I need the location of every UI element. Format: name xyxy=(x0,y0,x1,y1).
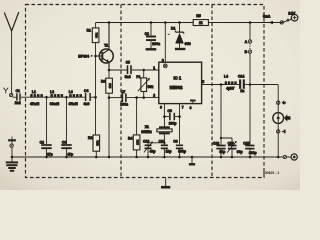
svg-text:C4: C4 xyxy=(84,89,88,93)
transistor T1 xyxy=(96,23,114,71)
wire emitter to C5 xyxy=(109,69,127,71)
svg-text:IC 1: IC 1 xyxy=(174,75,182,80)
wire B to output node xyxy=(249,53,251,84)
bottom terminal xyxy=(283,155,291,158)
capacitor C2 xyxy=(41,97,51,157)
rail ground marker xyxy=(189,157,195,164)
svg-text:1: 1 xyxy=(153,66,155,70)
svg-text:1k: 1k xyxy=(199,21,203,25)
earth terminal xyxy=(10,144,13,157)
antenna terminal marker xyxy=(3,88,12,97)
current arrow 5mA xyxy=(269,21,273,24)
earth ground symbol xyxy=(6,157,18,171)
svg-text:4µH7: 4µH7 xyxy=(226,87,234,91)
capacitor C11 xyxy=(161,143,168,157)
node earphone/ground rail xyxy=(277,156,280,159)
capacitor C1 xyxy=(17,93,30,100)
svg-text:+: + xyxy=(287,18,289,22)
svg-text:T1: T1 xyxy=(104,44,108,48)
svg-text:C15: C15 xyxy=(243,141,249,145)
shield divider 1 xyxy=(120,5,122,178)
svg-text:5n6: 5n6 xyxy=(125,75,131,79)
node collector/rail xyxy=(108,21,111,24)
pin 7 wire xyxy=(179,104,181,145)
node base column (C4 junction) xyxy=(94,96,97,99)
svg-text:880829 - 2: 880829 - 2 xyxy=(263,171,279,175)
inductor L2 xyxy=(50,94,63,97)
IC internal ground (pin 3) xyxy=(190,101,196,104)
node L4 left xyxy=(220,83,223,86)
node pin1/P1 top xyxy=(142,69,145,72)
svg-text:L3: L3 xyxy=(69,90,73,94)
svg-text:L1: L1 xyxy=(32,90,36,94)
svg-text:C9: C9 xyxy=(168,109,172,113)
svg-text:5: 5 xyxy=(202,80,204,84)
node L1/L2 junction xyxy=(45,96,48,99)
diode D1 (zener) xyxy=(175,23,186,50)
node pin7/C9 xyxy=(178,115,181,118)
node rail / A tap xyxy=(249,21,252,24)
trimmer C10 xyxy=(144,141,153,157)
svg-text:6V8: 6V8 xyxy=(185,42,191,46)
top supply rail xyxy=(96,22,283,24)
svg-text:3: 3 xyxy=(190,106,192,110)
paper background xyxy=(0,0,300,190)
svg-text:8: 8 xyxy=(162,58,164,62)
jack terminal bottom xyxy=(277,130,285,134)
svg-text:2: 2 xyxy=(153,94,155,98)
dotted link A-B xyxy=(249,44,251,50)
trimmer C13 xyxy=(227,141,237,157)
node crystal / C11 xyxy=(163,142,165,144)
wire antenna to C1 xyxy=(13,96,17,98)
svg-text:100n: 100n xyxy=(152,42,160,46)
svg-text:60p: 60p xyxy=(237,150,243,154)
wire link C12-C13 xyxy=(221,138,232,145)
svg-text:C14: C14 xyxy=(238,74,244,78)
svg-text:C13: C13 xyxy=(228,141,234,145)
capacitor C5 xyxy=(128,65,159,74)
svg-text:NE602: NE602 xyxy=(170,85,183,90)
terminal B xyxy=(248,50,251,53)
capacitor C9 xyxy=(164,113,179,120)
rail junction dots xyxy=(11,156,14,159)
svg-text:7: 7 xyxy=(182,106,184,110)
earth terminal chassis bar xyxy=(8,137,16,144)
svg-text:R4: R4 xyxy=(128,136,132,140)
svg-text:10k: 10k xyxy=(136,139,140,144)
svg-text:C7: C7 xyxy=(121,90,125,94)
resistor R5 xyxy=(193,20,208,26)
svg-text:C5: C5 xyxy=(126,61,130,65)
svg-text:330p: 330p xyxy=(249,151,257,155)
battery + 12V xyxy=(291,14,298,21)
antenna xyxy=(4,12,18,93)
earphone xyxy=(273,113,291,124)
pin 6 wire xyxy=(163,104,165,127)
svg-text:3n3: 3n3 xyxy=(84,102,90,106)
svg-text:47mH: 47mH xyxy=(30,102,40,106)
svg-text:R2: R2 xyxy=(88,136,92,140)
wire R3 node to C7 xyxy=(109,97,122,99)
svg-text:B: B xyxy=(245,50,248,54)
svg-text:X1: X1 xyxy=(145,125,149,129)
svg-text:D1: D1 xyxy=(171,27,175,31)
node R3 bottom xyxy=(108,96,111,99)
capacitor C6 xyxy=(146,23,157,50)
inductor L1 xyxy=(30,94,43,97)
inductor L4 xyxy=(225,81,237,84)
svg-text:5mA: 5mA xyxy=(263,15,271,19)
battery - terminal xyxy=(291,154,297,160)
potentiometer P1 xyxy=(138,70,150,98)
inductor L3 xyxy=(69,94,82,97)
svg-text:100n: 100n xyxy=(120,103,128,107)
svg-text:C8: C8 xyxy=(173,139,177,143)
svg-text:C6: C6 xyxy=(145,32,149,36)
wire link to C10 xyxy=(148,143,164,145)
capacitor C3 xyxy=(61,97,71,157)
svg-text:C3: C3 xyxy=(62,141,66,145)
svg-text:40p: 40p xyxy=(150,149,156,153)
op IC1 NE602 xyxy=(159,62,202,103)
capacitor C7 xyxy=(122,93,158,102)
resistor R1 xyxy=(92,23,99,43)
svg-text:1k8: 1k8 xyxy=(108,83,112,88)
node output xyxy=(249,83,252,86)
resistor R4 xyxy=(133,98,140,157)
node pin2/P1 bottom xyxy=(142,96,145,99)
svg-text:12V: 12V xyxy=(288,10,295,15)
terminal A xyxy=(248,40,251,43)
svg-text:R1: R1 xyxy=(87,29,91,33)
node pin6/C9 xyxy=(163,115,166,118)
svg-text:68mH: 68mH xyxy=(50,102,60,106)
svg-text:L4: L4 xyxy=(224,75,228,79)
svg-text:BF494: BF494 xyxy=(78,54,89,58)
svg-text:560p: 560p xyxy=(178,149,186,153)
ground rail xyxy=(12,156,283,158)
earphone jack chain xyxy=(277,101,279,157)
shield ground xyxy=(161,178,170,188)
pin 8 supply xyxy=(163,23,167,68)
svg-text:18p: 18p xyxy=(166,149,172,153)
node C12 link xyxy=(220,137,222,139)
svg-text:R5: R5 xyxy=(196,14,200,18)
shield divider 2 xyxy=(211,5,213,178)
svg-text:C1: C1 xyxy=(16,89,20,93)
supply terminal xyxy=(280,19,291,24)
svg-text:C2: C2 xyxy=(40,141,44,145)
svg-text:6: 6 xyxy=(160,106,162,110)
svg-text:C11: C11 xyxy=(159,139,165,143)
node emitter xyxy=(108,69,111,72)
svg-text:P1: P1 xyxy=(136,75,140,79)
wire output to earphone xyxy=(250,85,278,101)
svg-text:100p: 100p xyxy=(169,122,177,126)
crystal X1 xyxy=(157,127,172,143)
svg-text:39k: 39k xyxy=(95,140,99,145)
capacitor C8 xyxy=(176,145,183,157)
wire L4 tap down xyxy=(220,85,222,139)
node base tap xyxy=(94,55,97,58)
svg-text:10MHz: 10MHz xyxy=(141,130,152,134)
capacitor C14 xyxy=(237,79,250,89)
resistor R2 xyxy=(93,135,100,157)
svg-text:R3: R3 xyxy=(101,79,105,83)
svg-text:C10: C10 xyxy=(143,139,149,143)
capacitor C4 xyxy=(82,93,96,101)
svg-text:47p: 47p xyxy=(67,152,73,156)
capacitor C15 xyxy=(245,85,254,158)
wire rail to A xyxy=(249,23,251,40)
capacitor C12 xyxy=(216,138,225,157)
svg-text:A: A xyxy=(245,40,248,44)
svg-text:47mH: 47mH xyxy=(69,102,79,106)
svg-text:2n2: 2n2 xyxy=(15,101,21,105)
pin 5 wire xyxy=(202,84,225,86)
jack terminal top xyxy=(277,100,286,105)
svg-text:39k: 39k xyxy=(95,32,99,37)
svg-text:L2: L2 xyxy=(50,90,54,94)
svg-text:47p: 47p xyxy=(47,152,53,156)
resistor R3 xyxy=(106,70,113,157)
svg-text:50k: 50k xyxy=(148,85,154,89)
svg-text:68p: 68p xyxy=(219,150,225,154)
node L2/L3 junction xyxy=(65,96,68,99)
shield box (dashed enclosure) xyxy=(26,5,265,178)
wire base column xyxy=(95,43,97,135)
polarity dash xyxy=(168,33,170,35)
svg-text:1n: 1n xyxy=(240,89,244,93)
svg-text:C12: C12 xyxy=(213,141,219,145)
